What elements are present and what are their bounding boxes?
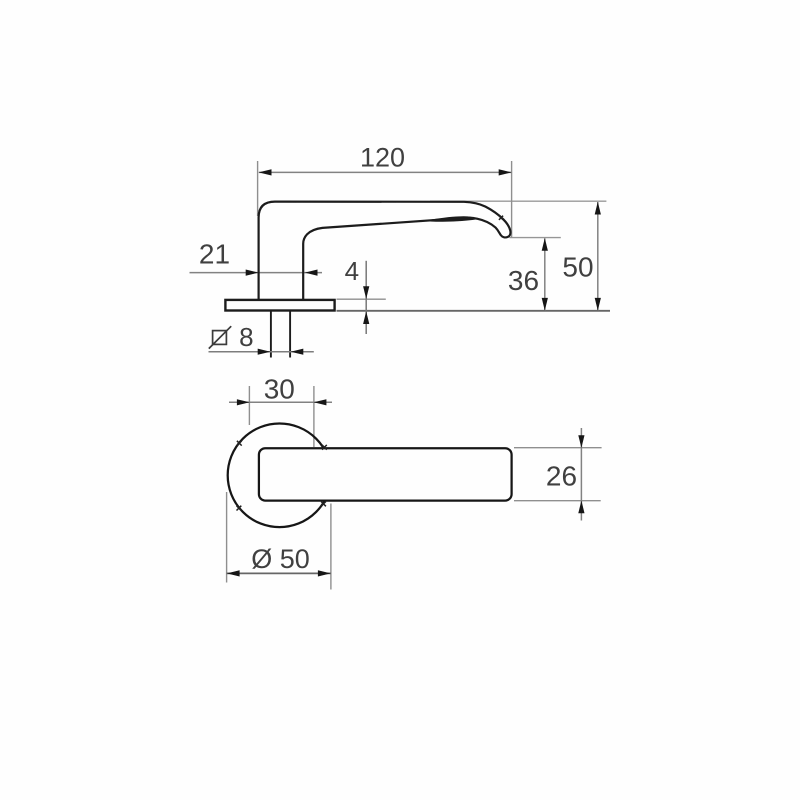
extension line right (120 dim, down to tip) [511,161,513,238]
extension line at tip underside (36 dim) [510,237,561,239]
dimension line 36 [544,238,546,310]
long extension line at flange bottom (36 / 50 dims) [337,310,611,312]
extension line 26 top [514,447,602,449]
dimension line square-8 [209,351,314,353]
arrow 36 top [542,238,548,251]
extension line d50 left [226,492,228,583]
tangent marker top-right [322,445,327,450]
dimension line 30 [229,401,332,403]
lever grip (plan view) [259,448,512,500]
handle underside thick sliver [428,217,477,221]
extension line at flange top (4 dim) [337,298,386,300]
tangent marker on tip curve [499,216,503,220]
svg-text:Ø 50: Ø 50 [251,544,310,574]
extension line 30 right [313,386,315,447]
svg-text:50: 50 [562,252,593,283]
arrow 50 top [595,202,601,215]
dimension line 4 (vertical, flange thickness) [365,261,367,334]
arrow 50 bottom [595,298,601,311]
rose flange (side view) [225,300,334,311]
svg-text:4: 4 [345,256,359,286]
arrow 30 right [314,399,327,405]
arrow d50 left [227,570,240,576]
arrow 4 top [363,286,369,299]
svg-text:26: 26 [546,461,577,492]
svg-text:21: 21 [199,239,230,270]
svg-text:30: 30 [264,374,295,405]
square-section symbol [209,326,231,348]
tangent marker bottom-left [237,506,242,511]
spindle line right [289,311,291,357]
arrow 26 top [578,435,584,448]
dimension line 50 [597,202,599,310]
arrow 36 bottom [542,298,548,311]
arrow 120 right [499,169,512,175]
tangent marker top-left [237,441,242,446]
arrow 120 left [259,169,272,175]
dimension line 120 [259,171,512,173]
extension line top edge (right of handle tip) [430,200,606,202]
handle outline (side view) [259,202,511,300]
arrow 21 left [246,270,259,276]
dimension line 26 [580,428,582,521]
extension line left (120 dim) [257,161,259,216]
arrow 30 left [237,399,250,405]
svg-text:120: 120 [360,143,405,173]
spindle line left [270,311,272,357]
arrow square-8 right [291,349,304,355]
svg-text:8: 8 [239,322,253,352]
arrow 21 right [305,270,318,276]
arrow square-8 left [258,349,271,355]
tangent marker bottom-right [321,502,326,507]
extension line 30 left [248,386,250,425]
extension line 26 bottom [514,500,601,502]
svg-text:36: 36 [508,265,539,296]
arrow 26 bottom [578,501,584,514]
rose circle (plan view) [228,424,332,528]
extension line d50 right [330,504,332,590]
arrow 4 bottom [363,311,369,324]
dimension line d50 [227,572,331,574]
arrow d50 right [318,570,331,576]
dimension line 21 [190,272,323,274]
